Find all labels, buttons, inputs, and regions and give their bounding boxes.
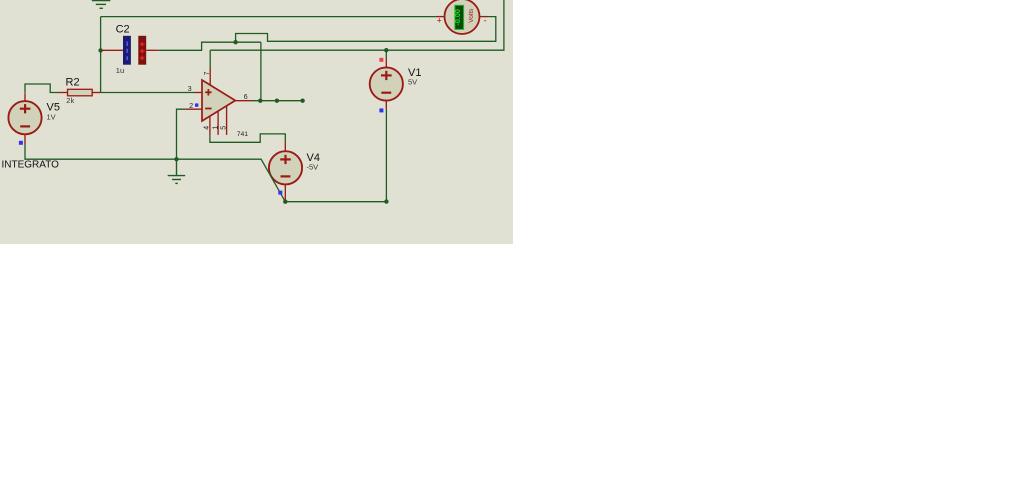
svg-text:-: - [484,16,487,26]
wire V5 to R2 [25,84,59,93]
svg-text:6: 6 [244,94,248,101]
voltage source V4 [269,141,302,201]
svg-text:7: 7 [204,71,211,75]
svg-text:C2: C2 [116,24,130,36]
wire pin 2 to ground rail [177,109,186,159]
svg-text:2k: 2k [66,96,74,105]
capacitor C2 [102,36,159,65]
svg-text:1: 1 [212,126,219,130]
svg-text:741: 741 [237,131,249,138]
svg-text:INTEGRATO: INTEGRATO [2,160,60,171]
marker V1 bottom [379,108,383,112]
marker V4 bottom [278,191,282,195]
marker V5 bottom [19,141,23,145]
svg-text:5: 5 [221,126,228,130]
marker V1 top [379,58,383,62]
svg-text:2: 2 [189,103,193,110]
wire V+ rail [210,0,504,50]
svg-text:-5V: -5V [307,163,319,172]
wire bottom rail [285,201,386,203]
svg-text:-0.00: -0.00 [453,9,462,25]
svg-text:4: 4 [203,126,210,130]
ground (top, floating) [92,1,111,9]
junction node output end [300,99,304,103]
wire top rail to voltmeter + [101,16,436,18]
junction node output left [258,99,262,103]
wire pin 4 to V4 [210,134,285,142]
resistor R2 [59,89,101,96]
wire R2 to pin 3 [101,92,195,94]
wire hop to voltmeter - [236,17,496,43]
junction node output mid [275,99,279,103]
voltage source V1 [370,50,403,109]
wire ground rail [25,144,285,202]
wire op-amp output [252,100,303,102]
svg-text:5V: 5V [408,78,417,87]
svg-text:1V: 1V [47,112,56,121]
svg-text:Volts: Volts [468,8,475,23]
wire output riser [260,42,262,100]
svg-text:3: 3 [188,86,192,93]
op-amp U1 741 [185,50,252,135]
junction node bottom rail left [283,200,287,204]
junction node at C2 left [98,48,102,52]
svg-text:R2: R2 [66,77,80,89]
wire input-node riser [100,17,102,93]
junction node V1 top [384,48,388,52]
voltmeter [436,0,488,34]
junction node bottom rail right [384,199,388,203]
voltage source V5 [8,93,41,143]
wire C2 to output node [159,42,261,50]
wire V1 to bottom rail [385,109,387,201]
junction node ground rail [174,157,178,161]
svg-text:+: + [437,16,442,26]
junction node feedback [233,40,237,44]
marker pin 2 [195,103,198,106]
ground symbol [168,159,186,183]
svg-text:1u: 1u [116,66,124,75]
